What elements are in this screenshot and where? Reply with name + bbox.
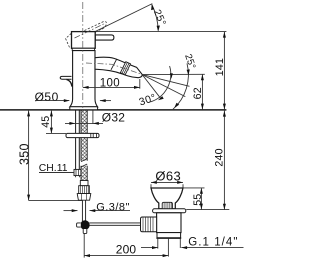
- ray A horizontal: [142, 73, 205, 75]
- spout elbow joint line: [111, 59, 117, 70]
- dimension 62: [201, 74, 203, 109]
- ray C: [142, 75, 185, 97]
- drain flange: [153, 209, 186, 213]
- drain body: [157, 213, 181, 233]
- svg-text:55: 55: [192, 194, 204, 206]
- dimension 141: [223, 32, 225, 110]
- drain funnel: [151, 188, 183, 209]
- spout centerline: [86, 63, 141, 74]
- svg-text:350: 350: [18, 143, 32, 165]
- CH.11 nut: [74, 169, 81, 175]
- svg-text:141: 141: [214, 58, 226, 76]
- svg-text:Ø32: Ø32: [102, 110, 125, 124]
- svg-text:G.1 1/4": G.1 1/4": [188, 237, 238, 249]
- drain body inlet recess: [155, 217, 157, 229]
- cartridge cap: [72, 32, 96, 49]
- dimension 45: [50, 111, 52, 134]
- spray small arc 30: [150, 66, 170, 102]
- rotated lever centerline: [75, 23, 105, 38]
- arrow to tailpiece left: [141, 247, 158, 249]
- pop-up rod tube: [76, 110, 80, 169]
- drain side nut: [141, 217, 157, 232]
- drain plug knob: [162, 202, 172, 209]
- ray D: [142, 75, 161, 100]
- threaded shank upper: [81, 110, 87, 161]
- handle 25-degree ray: [95, 4, 152, 32]
- supply tube G3/8: [82, 200, 85, 221]
- dashed rotated lever outline: [78, 21, 107, 39]
- dimension 240: [223, 111, 225, 210]
- ball joint: [81, 221, 89, 229]
- svg-text:62: 62: [192, 87, 204, 99]
- extension line washer top: [46, 132, 66, 134]
- svg-text:200: 200: [116, 243, 137, 257]
- extension drain center: [167, 239, 169, 257]
- aerator band: [120, 62, 130, 75]
- handle angle arc 25: [152, 5, 158, 31]
- cap ring: [72, 48, 94, 50]
- supply hex nut: [77, 194, 91, 201]
- faucet body column with base flare: [70, 51, 98, 107]
- dimension 350: [28, 111, 30, 201]
- threaded shank lower: [81, 164, 87, 181]
- base ring: [70, 107, 98, 110]
- ray B: [142, 75, 189, 87]
- dimension 55: [200, 188, 202, 209]
- shank adjusting ring: [80, 181, 88, 186]
- cap top reference line: [95, 31, 226, 33]
- drain tailpiece: [157, 233, 181, 238]
- svg-text:45: 45: [40, 116, 52, 128]
- svg-text:G.3/8": G.3/8": [96, 202, 130, 214]
- extension line spout tip: [139, 79, 141, 89]
- label G.3/8 with arrows: [29, 200, 83, 202]
- faucet centerline: [82, 2, 84, 108]
- lever handle: [95, 35, 114, 40]
- horizontal pop rod: [89, 223, 140, 225]
- extension flare right: [184, 187, 205, 189]
- spray big arc 25: [173, 63, 189, 109]
- extension flange right: [186, 209, 229, 211]
- horseshoe washer and nut: [66, 133, 99, 137]
- extension below ball: [83, 234, 85, 258]
- extension tailpiece left: [157, 239, 159, 249]
- mounting deck line: [0, 109, 226, 111]
- extension tailpiece right: [179, 239, 181, 249]
- svg-text:240: 240: [213, 148, 225, 166]
- dashed rotated cap edge: [66, 33, 72, 47]
- pop-up rod knob: [60, 76, 71, 79]
- spout body: [95, 57, 142, 77]
- svg-text:Ø50: Ø50: [35, 90, 59, 104]
- knurled ring: [79, 186, 90, 194]
